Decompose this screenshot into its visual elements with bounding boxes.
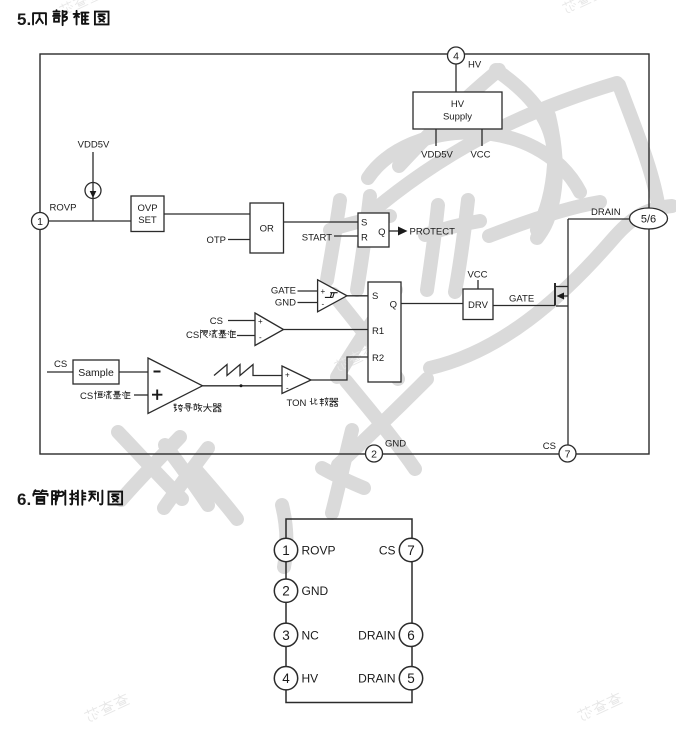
block diagram outer box (40, 54, 649, 454)
wire: TON comparator to latch2 R2 (311, 357, 368, 380)
watermark: small mark top-left partial (58, 0, 101, 16)
pin 4 (HV) (448, 47, 482, 71)
svg-text:START: START (302, 233, 332, 244)
svg-text:Q: Q (390, 300, 397, 311)
wire: GND to schmitt (298, 302, 318, 304)
wire: GATE to schmitt (298, 290, 318, 292)
svg-text:6.: 6. (17, 490, 31, 509)
wire: comparator U5 to latch2 R1 (284, 329, 369, 331)
svg-text:6: 6 (407, 628, 415, 643)
svg-text:+: + (258, 317, 263, 326)
svg-text:Q: Q (378, 227, 385, 238)
label TON 比较器 (287, 398, 339, 409)
svg-text:4: 4 (453, 51, 459, 63)
latch U4 S R1 R2 (368, 282, 401, 382)
svg-text:VCC: VCC (467, 270, 487, 281)
comparator U3 schmitt trigger (318, 280, 347, 312)
svg-text:GND: GND (275, 298, 296, 309)
svg-text:VCC: VCC (470, 150, 490, 161)
svg-text:4: 4 (282, 671, 290, 686)
pin 4 HV (274, 667, 318, 690)
svg-text:CS: CS (186, 330, 199, 341)
wire: HV Supply VDD5V output stub (435, 129, 437, 146)
svg-text:HV: HV (468, 60, 482, 71)
watermark: small mark top-right partial (561, 0, 604, 14)
svg-text:-: - (286, 384, 289, 393)
svg-text:S: S (372, 291, 378, 302)
svg-text:5.: 5. (17, 10, 31, 29)
pin 5/6 (DRAIN) (630, 208, 668, 229)
svg-text:OVP: OVP (137, 203, 157, 214)
block: OVP SET (131, 196, 164, 232)
wire: OR to SR latch S input (284, 221, 359, 223)
svg-text:2: 2 (371, 449, 377, 461)
svg-text:GATE: GATE (271, 286, 296, 297)
wire: CS恒流基准 to error amp (134, 394, 148, 396)
svg-text:7: 7 (407, 543, 415, 558)
svg-text:CS: CS (210, 316, 223, 327)
svg-text:1: 1 (282, 543, 290, 558)
svg-text:5: 5 (407, 671, 415, 686)
wire: CS to comparator U5 (228, 320, 255, 322)
pin 2 (GND) (366, 439, 407, 463)
pin 6 DRAIN (358, 623, 423, 646)
wire: VCC to DRV (477, 280, 479, 289)
net label CS限流基准 (186, 330, 236, 341)
svg-text:Supply: Supply (443, 112, 472, 123)
svg-text:GND: GND (385, 439, 406, 450)
pin 2 GND (274, 579, 328, 602)
net label CS恒流基准 (80, 391, 130, 402)
latch U2 SR (358, 213, 389, 247)
block: HV Supply U1 (413, 92, 502, 129)
svg-text:-: - (259, 333, 262, 342)
IC package outline (286, 519, 412, 703)
wire: START to SR latch R input (334, 235, 358, 237)
arrow + net label PROTECT (398, 227, 455, 238)
svg-text:R1: R1 (372, 326, 384, 337)
svg-text:+: + (321, 287, 326, 296)
current source I1 (85, 183, 101, 199)
node: junction dot on error amp output (240, 384, 243, 387)
svg-text:OTP: OTP (206, 235, 226, 246)
svg-text:HV: HV (451, 99, 465, 110)
svg-text:CS: CS (543, 441, 556, 452)
svg-text:CS: CS (54, 359, 67, 370)
svg-text:DRAIN: DRAIN (358, 672, 395, 686)
watermark: small mark center (333, 343, 376, 372)
block: DRV driver (463, 289, 493, 320)
wire: latch2 Q to DRV (401, 303, 463, 305)
svg-text:GATE: GATE (509, 294, 534, 305)
wire: OTP to OR gate (228, 239, 250, 241)
pin 1 ROVP (274, 538, 335, 561)
wire: MOSFET drain to pin 5/6 (568, 218, 630, 220)
wire: OVP SET to OR gate (164, 213, 250, 215)
svg-text:ROVP: ROVP (50, 203, 77, 214)
svg-text:R: R (361, 233, 368, 244)
wire: Sample to error amp (119, 371, 148, 373)
watermark: small corner mark bottom-right (576, 691, 622, 722)
svg-text:S: S (361, 218, 367, 229)
svg-text:7: 7 (565, 449, 571, 461)
svg-text:SET: SET (138, 215, 157, 226)
svg-text:DRAIN: DRAIN (358, 628, 395, 642)
comparator U5 current limit (255, 313, 284, 346)
pin 3 NC (274, 623, 319, 646)
wire: CS限流基准 to comparator U5 (237, 335, 255, 337)
svg-text:+: + (285, 371, 290, 380)
pin 5 DRAIN (358, 667, 423, 690)
transistor Q1 power MOSFET (555, 283, 568, 306)
svg-text:Sample: Sample (78, 367, 114, 379)
gate: OR (250, 203, 284, 253)
block: Sample (73, 360, 119, 384)
comparator U7 TON (282, 366, 311, 394)
svg-text:NC: NC (302, 628, 320, 642)
svg-text:3: 3 (282, 628, 290, 643)
svg-text:CS: CS (80, 391, 93, 402)
wire: error amp output to TON comparator (203, 385, 283, 387)
svg-text:DRV: DRV (468, 300, 489, 311)
label 跨导放大器 (174, 403, 221, 411)
svg-text:GND: GND (302, 584, 329, 598)
section title 5.内部框图 (17, 10, 109, 29)
svg-text:VDD5V: VDD5V (421, 150, 453, 161)
svg-text:TON: TON (287, 398, 307, 409)
svg-text:5/6: 5/6 (641, 214, 656, 226)
pin 7 (CS) (543, 441, 576, 462)
watermark: small corner mark bottom-left (83, 692, 129, 723)
wire: schmitt to latch2 S input (347, 295, 368, 297)
watermark: large gray brush-stroke logo (118, 70, 672, 567)
svg-text:1: 1 (37, 216, 43, 228)
svg-text:DRAIN: DRAIN (591, 207, 621, 218)
wire: ROVP to OVP SET (49, 220, 132, 222)
sawtooth ramp waveform and wire to TON + input (214, 365, 282, 376)
svg-text:VDD5V: VDD5V (78, 140, 110, 151)
pin 7 CS (379, 538, 423, 561)
wire: DRV to MOSFET gate (493, 305, 555, 307)
wire: pin4 to HV Supply (455, 64, 457, 92)
pin 1 (ROVP) (32, 203, 77, 230)
op-amp U6 transconductance amplifier (148, 358, 203, 414)
wire: MOSFET drain/source vertical (567, 219, 569, 445)
svg-text:R2: R2 (372, 353, 384, 364)
wire: HV Supply VCC output stub (481, 129, 483, 146)
svg-text:CS: CS (379, 544, 396, 558)
wire: CS to Sample (47, 371, 73, 373)
wire: SR latch Q to PROTECT arrow (389, 230, 399, 232)
section title 6.管脚排列图 (17, 490, 122, 509)
svg-text:ROVP: ROVP (302, 544, 336, 558)
svg-text:2: 2 (282, 584, 290, 599)
svg-text:-: - (322, 300, 325, 309)
svg-text:PROTECT: PROTECT (410, 227, 456, 238)
svg-text:OR: OR (260, 224, 274, 235)
svg-text:HV: HV (302, 672, 319, 686)
wire: VDD5V to ROVP node (92, 152, 94, 221)
